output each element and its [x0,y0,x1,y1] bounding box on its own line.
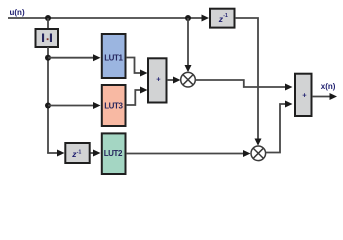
svg-text:-1: -1 [223,13,228,19]
LUT1 block [102,34,126,78]
wire: bus corner to delay U2 [47,150,64,157]
multiplier M2 [251,146,266,161]
wire: top rail from u(n) to delay U4 [8,15,209,22]
junction: rail to abs branch [45,15,51,21]
wire: adder S2 to output x(n) [312,93,337,100]
svg-text:LUT1: LUT1 [104,54,123,63]
delay block U4 z^-1 (top) [210,9,235,28]
multiplier M1 [181,72,196,87]
wire: rail junction down to multiplier M1 [185,18,192,72]
wire: delay U2 to LUT2 [91,150,101,157]
wire: bus to LUT1 [48,54,101,61]
svg-text:-1: -1 [77,149,82,155]
junction: bus to LUT3 [45,103,51,109]
svg-text:+: + [302,91,307,100]
wire: LUT3 to adder S1 [126,87,148,106]
abs block U1 |.| [36,29,59,47]
adder S1 [148,58,167,102]
delay block U2 z^-1 (bottom) [65,143,89,163]
wire: multiplier M2 to adder S2 [266,101,293,153]
LUT2 block [102,133,126,174]
wire: multiplier M1 to adder S2 [195,80,292,91]
wire: LUT1 to adder S1 [126,58,148,77]
wire: bus to LUT3 [48,102,101,109]
wire: LUT2 to multiplier M2 [126,150,251,157]
junction: bus to LUT1 [45,55,51,61]
wire: delay U4 to multiplier M2 [235,18,262,146]
wire: branch down into abs block [47,18,49,29]
svg-text:x(n): x(n) [321,82,336,91]
junction: rail to multiplier M1 [185,15,191,21]
wire: left bus below abs block [47,47,49,154]
svg-text:u(n): u(n) [10,8,25,17]
LUT3 block [102,85,126,126]
svg-text:LUT3: LUT3 [104,101,123,110]
svg-text:LUT2: LUT2 [104,149,123,158]
adder S2 (output sum) [295,74,312,116]
wire: adder S1 to multiplier M1 [167,77,181,84]
svg-text:+: + [156,75,161,84]
